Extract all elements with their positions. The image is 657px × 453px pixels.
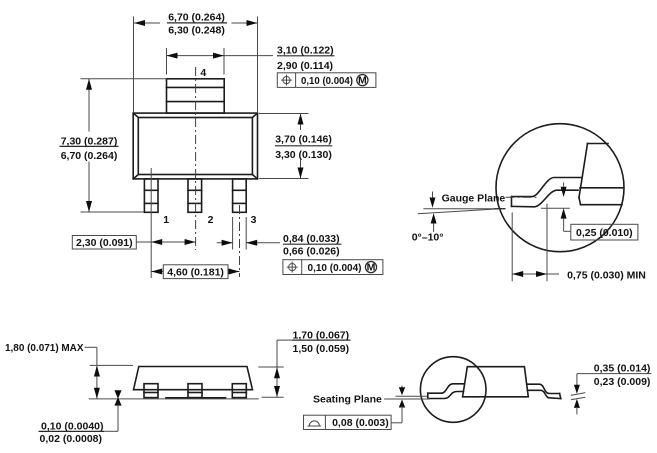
svg-text:0,08 (0.003): 0,08 (0.003) [332,417,389,429]
top view: body outer outline [133,113,257,179]
side view: body outline [134,367,253,390]
FCF position tolerance (bottom): cross-circle 0,10 (0.004) M [283,260,383,275]
svg-text:1,80 (0.071) MAX: 1,80 (0.071) MAX [5,342,84,354]
angle arrow lower [431,213,437,232]
top view: vertical center line [195,67,197,250]
gauge plane dash-dot line [506,196,538,198]
profile view: body outline [463,367,529,397]
side view: seating plane line [89,398,259,400]
angle arrow upper [430,192,436,208]
svg-text:0,35 (0.014): 0,35 (0.014) [594,362,651,374]
svg-text:1,50 (0.059): 1,50 (0.059) [293,343,350,355]
side view: pin 2 [188,384,202,398]
svg-text:6,70 (0.264): 6,70 (0.264) [168,12,225,24]
top view: pin 3 center line [239,205,241,277]
svg-text:2,30 (0.091): 2,30 (0.091) [76,237,133,249]
svg-text:2: 2 [208,214,214,226]
svg-text:2,90 (0.114): 2,90 (0.114) [277,60,333,72]
svg-text:0,25 (0.010): 0,25 (0.010) [576,227,633,239]
svg-text:6,70 (0.264): 6,70 (0.264) [61,150,118,162]
lead detail: lead outline [512,178,583,207]
dim 0,25 (0.010) boxed with arrows [541,182,638,240]
dim 1,70 (0.067) / 1,50 (0.059) [258,329,350,397]
Seating Plane label with leader [313,394,430,406]
dim 3,70 (0.146) / 3,30 (0.130) [259,114,332,179]
svg-text:1: 1 [163,214,169,226]
seating plane angle line (horizontal) [423,208,505,210]
dim 4,60 (0.181) boxed [151,265,239,279]
svg-text:4,60 (0.181): 4,60 (0.181) [167,267,224,279]
svg-text:M: M [367,262,376,274]
svg-text:0°–10°: 0°–10° [412,231,444,243]
top view: pin 1 center extension line [150,168,152,278]
profile view: right lead [527,384,561,398]
dim 0,75 (0.030) MIN [512,204,646,282]
svg-text:0,23 (0.009): 0,23 (0.009) [594,376,651,388]
dim 6,70 (0.264) / 6,30 (0.248) [134,12,258,112]
lead underside angle line (slanted) [418,209,502,214]
profile view: detail circle [420,357,486,423]
svg-text:0,10 (0.0040): 0,10 (0.0040) [41,420,103,432]
svg-text:3,10 (0.122): 3,10 (0.122) [277,45,334,57]
dim 7,30 (0.287) / 6,70 (0.264) [60,79,167,212]
side view: tab bottom edge [166,397,226,399]
FCF position tolerance (top): cross-circle 0,10 (0.004) M [277,73,376,88]
seating plane flatness arrows [391,386,405,423]
svg-text:Seating Plane: Seating Plane [313,394,382,406]
svg-text:7,30 (0.287): 7,30 (0.287) [61,135,118,147]
side view: pin 3 [232,384,246,398]
dim 0,10 (0.0040) / 0,02 (0.0008) standoff with hourglass arrows [39,390,122,445]
dim 1,80 (0.071) MAX with leader [5,342,133,399]
svg-text:M: M [358,75,367,87]
svg-text:0,66 (0.026): 0,66 (0.026) [283,246,340,258]
side view: pin 1 [144,384,158,398]
top view: pin 3 outline [233,179,247,212]
svg-text:0,84 (0.033): 0,84 (0.033) [283,233,340,245]
svg-text:4: 4 [200,67,206,79]
svg-text:3,70 (0.146): 3,70 (0.146) [275,134,332,146]
dim 3,10 (0.122) / 2,90 (0.114) [167,45,335,75]
top view: pin 3 edge extension lines [233,217,247,250]
top view: tab (pin 4) outline [167,79,225,113]
svg-text:3,30 (0.130): 3,30 (0.130) [275,149,332,161]
top view: body inner outline with corner chamfers [133,113,257,179]
svg-text:6,30 (0.248): 6,30 (0.248) [168,24,225,36]
svg-text:3: 3 [251,214,257,226]
svg-text:0,10 (0.004): 0,10 (0.004) [301,75,353,87]
lead detail circle [496,124,624,252]
top view: pin 2 outline [188,179,202,212]
svg-text:0,10 (0.004): 0,10 (0.004) [308,262,362,274]
svg-text:0,02 (0.0008): 0,02 (0.0008) [40,433,102,445]
svg-text:0,75 (0.030) MIN: 0,75 (0.030) MIN [567,269,646,281]
top view: pin 1 outline [144,179,158,212]
dim 0,84 (0.033) / 0,66 (0.026) [217,233,342,258]
profile view: left lead [428,384,465,399]
lead detail: body outline [579,144,623,205]
dim 2,30 (0.091) boxed [72,236,195,250]
FCF flatness: 0,08 (0.003) [304,415,392,429]
svg-text:Gauge Plane: Gauge Plane [442,192,506,204]
dim 0,35 (0.014) / 0,23 (0.009) [571,362,652,414]
